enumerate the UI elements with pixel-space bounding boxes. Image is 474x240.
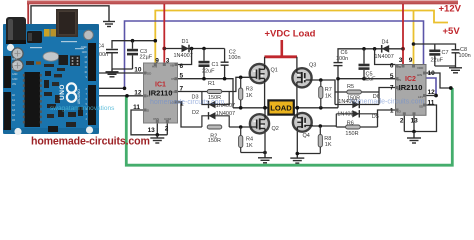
svg-text:R5: R5	[347, 84, 354, 90]
transistor Q1	[250, 64, 269, 83]
svg-text:D5: D5	[372, 114, 379, 120]
svg-text:22µF: 22µF	[140, 55, 153, 61]
transistor Q3 mirrored	[292, 68, 311, 87]
transistor Q2	[250, 114, 269, 133]
transistor Q4 mirrored	[293, 113, 312, 132]
svg-text:Q1: Q1	[271, 68, 278, 74]
wire loop to Q2 gate	[229, 126, 250, 128]
svg-text:GND: GND	[12, 78, 18, 81]
resistor R4 1K	[239, 127, 253, 153]
node green riser top	[449, 86, 453, 90]
wire IC2 pin 5 VS rail	[338, 79, 396, 108]
wire C7 C8 to ground	[435, 65, 456, 67]
node R3 top	[239, 76, 243, 80]
wire Q3 gate path	[312, 80, 336, 105]
svg-text:3: 3	[399, 57, 403, 64]
wire IC1 pin 6 to bootstrap	[178, 49, 192, 65]
diode D4 1N4007	[375, 40, 394, 60]
node Q2 source	[263, 151, 267, 155]
svg-text:GND: GND	[82, 51, 88, 54]
wire loop to Q4 gate	[312, 125, 337, 128]
node pin6 tap	[190, 47, 194, 51]
Arduino infinity logo	[67, 83, 76, 92]
svg-text:12: 12	[428, 89, 436, 96]
resistor R2 150R	[207, 125, 222, 144]
power jack	[6, 17, 26, 44]
svg-text:D1: D1	[182, 39, 189, 45]
node C3 tap	[131, 39, 135, 43]
crystal	[43, 52, 59, 61]
svg-text:5: 5	[180, 73, 184, 80]
svg-text:R3: R3	[246, 86, 253, 92]
svg-text:13: 13	[411, 118, 419, 125]
svg-text:C7: C7	[442, 50, 449, 56]
svg-text:9: 9	[155, 58, 159, 65]
node D1 tap on +12V	[162, 47, 166, 51]
svg-text:RST: RST	[12, 58, 17, 61]
node C6 bottom	[336, 77, 340, 81]
svg-text:100n: 100n	[336, 56, 348, 62]
USB connector	[56, 9, 78, 37]
svg-text:R6: R6	[347, 121, 354, 127]
svg-text:IR2110: IR2110	[399, 83, 423, 92]
node R3 bottom	[239, 106, 243, 110]
ground under C8	[449, 66, 462, 73]
white silkscreen dashes	[30, 47, 42, 48]
svg-text:7: 7	[180, 85, 184, 92]
wire bootstrap line IC1	[164, 48, 224, 50]
node R7 top	[319, 78, 323, 82]
wire yellow to IC2 pin 9	[413, 11, 415, 65]
svg-text:HO: HO	[170, 90, 175, 94]
wire red from Arduino Vin to +12V rail	[27, 4, 29, 24]
svg-text:100n: 100n	[228, 55, 240, 61]
svg-text:Q4: Q4	[303, 133, 310, 139]
wire Arduino to IC1 pin 10	[95, 72, 144, 74]
svg-text:IR2110: IR2110	[149, 89, 173, 98]
ICSP header	[70, 56, 80, 67]
node C2 bottom	[223, 77, 227, 81]
ATmega328 DIP	[25, 72, 41, 127]
right headers	[88, 43, 96, 81]
wire blue signal line	[125, 21, 437, 96]
wire IC2 pin 6 to bootstrap	[375, 49, 396, 65]
wire IC1 pin 1 to lower loop	[178, 102, 202, 127]
LOAD block	[268, 100, 293, 114]
resistor R7 1K	[319, 80, 332, 108]
svg-text:7: 7	[390, 85, 394, 92]
wire bootstrap line IC2	[338, 49, 403, 62]
wire Q1 source	[264, 80, 266, 108]
svg-text:VIN: VIN	[12, 83, 16, 86]
op-amp U1 : IC1 IR2110 body	[144, 63, 178, 123]
capacitor C5 electrolytic	[359, 49, 377, 83]
node IC2 ground	[412, 130, 416, 134]
wire Q2 drain	[264, 108, 266, 115]
mounting holes bottom	[14, 128, 21, 135]
svg-text:150R: 150R	[345, 131, 358, 137]
svg-text:IC2: IC2	[405, 76, 416, 83]
wire Q4 source to R8	[297, 153, 320, 155]
node yellow decoupling tap	[154, 39, 158, 43]
wire blue node to IC2 pin 12	[426, 95, 436, 97]
ground under Q4	[290, 154, 304, 164]
wire load line left	[233, 107, 268, 109]
wire Q4 source lead	[296, 129, 298, 154]
svg-text:GND: GND	[12, 73, 18, 76]
op-amp U2 : IC2 IR2110 body	[396, 65, 427, 116]
ground under Q2	[258, 153, 272, 163]
round cap top right	[84, 30, 94, 40]
svg-text:9: 9	[409, 57, 413, 64]
wire 5V decoupling rail right	[414, 44, 456, 50]
svg-text:Q2: Q2	[272, 126, 279, 132]
node Q1 Q2 junction	[263, 106, 267, 110]
svg-text:3: 3	[166, 58, 170, 65]
ground top-left	[103, 22, 115, 27]
node C7 rail tap	[412, 42, 416, 46]
svg-text:IC1: IC1	[155, 82, 166, 89]
Arduino Uno board photo	[3, 9, 99, 135]
wire IC1 pin 11 loop to ground	[131, 110, 167, 135]
capacitor C7 electrolytic	[429, 50, 448, 67]
node green tap	[125, 94, 129, 98]
wire C3 C4 to ground	[112, 68, 133, 70]
wire Q2 source lead	[264, 130, 266, 153]
capacitor C4	[96, 41, 133, 69]
svg-text:13: 13	[148, 127, 156, 134]
svg-text:22uF: 22uF	[363, 77, 376, 83]
node C5 bottom	[362, 77, 366, 81]
wire IC1 pin 13 stub	[156, 123, 158, 135]
wire +12V top rail	[27, 1, 458, 5]
ground under IC2	[407, 132, 421, 144]
node blue to pin 12	[434, 94, 438, 98]
svg-text:1N4007: 1N4007	[216, 111, 235, 117]
svg-text:R7: R7	[325, 87, 332, 93]
wire Q1 drain stub	[264, 57, 266, 65]
svg-text:VS: VS	[171, 77, 175, 81]
svg-text:UNO: UNO	[59, 84, 66, 100]
svg-text:1K: 1K	[325, 142, 332, 148]
svg-text:HIN: HIN	[417, 73, 422, 77]
resistor R1 150R	[207, 81, 222, 101]
svg-text:10: 10	[428, 70, 436, 77]
node blue riser	[123, 87, 127, 91]
node C1 bottom	[202, 77, 206, 81]
svg-text:5V: 5V	[12, 68, 15, 71]
svg-text:homemade-circuits.com: homemade-circuits.com	[350, 99, 424, 106]
node Q4 source	[296, 152, 300, 156]
wire Q4 drain	[296, 108, 298, 114]
gold caps	[44, 29, 50, 37]
mounting hole top-left	[7, 44, 14, 51]
svg-text:VDD: VDD	[417, 66, 424, 70]
wire +VDC red bar	[265, 55, 298, 58]
wire load line right	[294, 107, 338, 109]
diode D3 parallel loop	[192, 92, 236, 110]
diode D2 parallel loop	[192, 110, 235, 127]
svg-text:D2: D2	[192, 110, 199, 116]
voltage regulator	[27, 31, 42, 43]
svg-text:11: 11	[428, 100, 435, 107]
capacitor C3 electrolytic	[127, 49, 153, 69]
capacitor C8	[452, 47, 471, 66]
wire IC2 pin 11 loop to ground	[404, 105, 436, 132]
capacitor C6	[334, 50, 349, 79]
wire IC2 pin 10 to green riser	[426, 73, 452, 88]
svg-text:1: 1	[390, 108, 394, 115]
wire IC1 pin 2 stub	[166, 123, 168, 135]
left headers	[4, 56, 12, 88]
wire IC1 pin 5 VS rail	[178, 79, 234, 108]
svg-text:1K: 1K	[246, 143, 253, 149]
diode D5	[336, 110, 379, 127]
svg-text:6: 6	[180, 63, 184, 70]
capacitor C2	[221, 49, 241, 79]
svg-text:+12V: +12V	[439, 4, 462, 15]
wire IC2 pin 2 stub	[403, 115, 405, 131]
svg-text:5: 5	[390, 73, 394, 80]
svg-text:VB: VB	[170, 64, 174, 68]
svg-text:LOAD: LOAD	[270, 103, 292, 112]
wire R4 to Q2 source	[241, 152, 265, 154]
svg-text:2: 2	[165, 126, 169, 133]
wire red to IC2 pin 3	[402, 4, 404, 65]
svg-text:6: 6	[390, 63, 394, 70]
wire 5V decoupling rail left	[112, 41, 155, 49]
wire Q3 source	[296, 84, 298, 108]
svg-text:3V3: 3V3	[12, 63, 17, 66]
svg-text:+VDC Load: +VDC Load	[265, 29, 316, 40]
ground under C4	[106, 69, 119, 77]
node D4 tap on +12V	[401, 47, 405, 51]
node R7 bottom	[319, 106, 323, 110]
wire Arduino to IC1 pin 12	[95, 95, 144, 97]
svg-text:ARDUINO: ARDUINO	[77, 89, 81, 104]
svg-text:100n: 100n	[459, 53, 471, 59]
resistor R5 150R	[335, 84, 379, 101]
svg-text:11: 11	[133, 104, 140, 111]
svg-text:1N4007: 1N4007	[174, 53, 193, 59]
wire IC1 pin 7 gate path	[178, 77, 251, 91]
small smd bits	[26, 61, 34, 65]
capacitor C1 electrolytic	[199, 49, 219, 79]
svg-text:D4: D4	[382, 40, 389, 46]
QFP chip	[59, 55, 69, 65]
ground under IC1	[150, 135, 164, 143]
node Q3 Q4 junction	[295, 106, 299, 110]
wire IC2 pin 7 to R5 loop	[379, 88, 396, 105]
wire +VDC red feed	[280, 40, 283, 57]
svg-text:homemade-circuits.com: homemade-circuits.com	[150, 99, 224, 106]
node R8 top	[319, 124, 323, 128]
svg-text:12: 12	[134, 89, 142, 96]
wire Q3 drain stub	[296, 57, 298, 69]
wire red to IC1 pin 3	[163, 4, 165, 63]
svg-text:22uF: 22uF	[431, 58, 444, 64]
node C5 top	[362, 47, 366, 51]
svg-text:1N4007: 1N4007	[375, 54, 394, 60]
svg-text:R8: R8	[324, 136, 331, 142]
svg-text:1N4007: 1N4007	[337, 111, 356, 117]
resistor R8 1K	[318, 126, 332, 154]
wire IC2 pin 1 to lower loop	[378, 110, 396, 127]
electrolytic capacitors	[12, 48, 23, 59]
svg-text:2: 2	[400, 118, 404, 125]
node R4 top	[239, 125, 243, 129]
wire black Arduino GND to ground	[31, 6, 109, 24]
svg-text:swagatam innovations: swagatam innovations	[50, 105, 115, 112]
node C1 top	[202, 47, 206, 51]
diode D1 1N4007	[174, 39, 193, 59]
svg-text:+5V: +5V	[443, 26, 461, 37]
svg-text:150R: 150R	[208, 138, 221, 144]
node pin6 tap IC2	[373, 47, 377, 51]
wire IC2 pin 13 stub	[413, 115, 415, 131]
diode D6	[335, 94, 380, 108]
svg-text:R4: R4	[246, 136, 253, 142]
svg-text:10: 10	[134, 67, 142, 74]
node IC1 ground	[156, 133, 160, 137]
svg-text:1K: 1K	[325, 94, 332, 100]
svg-text:Q3: Q3	[309, 63, 316, 69]
svg-text:C1: C1	[212, 62, 219, 68]
wire Arduino to blue riser	[95, 87, 125, 89]
svg-text:homemade-circuits.com: homemade-circuits.com	[31, 136, 150, 148]
svg-text:22uF: 22uF	[202, 69, 215, 75]
resistor R6 150R	[336, 121, 377, 137]
svg-text:R1: R1	[208, 81, 215, 87]
wire yellow +5V rail	[155, 11, 448, 64]
svg-text:1K: 1K	[246, 93, 253, 99]
resistor R3 1K	[239, 77, 253, 108]
wire green LIN1-HIN2 link	[126, 88, 452, 165]
